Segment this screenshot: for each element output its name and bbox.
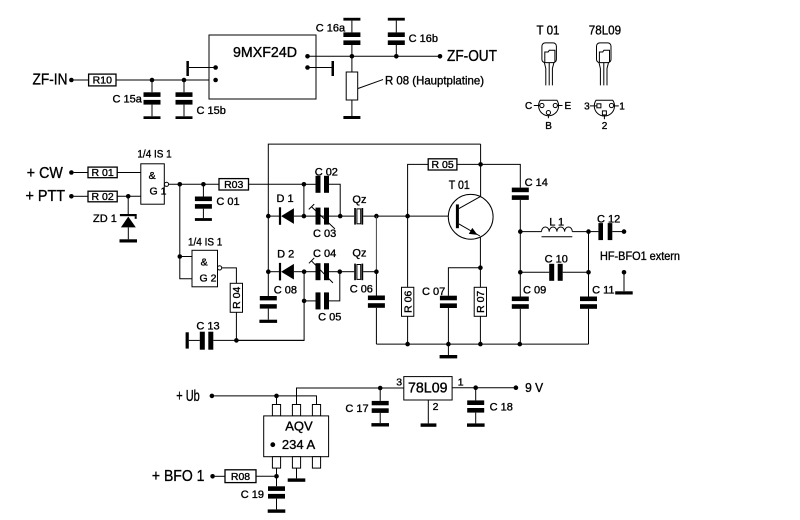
svg-text:C 13: C 13 (196, 321, 219, 333)
svg-text:C 11: C 11 (592, 284, 614, 296)
ground (388, 18, 405, 21)
crystal Qz lower (352, 247, 366, 280)
svg-text:1: 1 (619, 102, 625, 113)
svg-text:R 08 (Hauptplatine): R 08 (Hauptplatine) (385, 74, 484, 88)
capacitor C14 (481, 164, 548, 234)
resistor R06 (402, 216, 415, 344)
capacitor C08 (260, 272, 297, 320)
wire pin1 (452, 385, 516, 390)
ground (176, 116, 193, 119)
capacitor C02 (304, 167, 343, 219)
node +CW (27, 165, 74, 182)
ground (259, 320, 277, 323)
svg-text:R 01: R 01 (92, 167, 114, 179)
trimmer capacitor C04 (304, 248, 342, 283)
crystal filter 9MXF24D (209, 35, 316, 99)
svg-text:+ Ub: + Ub (176, 388, 200, 405)
svg-text:9 V: 9 V (525, 380, 543, 395)
ground (343, 18, 360, 21)
svg-text:C 18: C 18 (490, 402, 513, 414)
wire (297, 386, 404, 405)
ground (440, 344, 458, 358)
svg-text:T 01: T 01 (537, 23, 560, 38)
node ZF-IN (33, 71, 74, 88)
svg-text:C 15b: C 15b (197, 105, 226, 117)
resistor R10 (89, 74, 116, 87)
svg-text:G 2: G 2 (200, 272, 217, 284)
resistor R08 (Hauptplatine) (346, 56, 484, 116)
capacitor C12 (589, 214, 625, 241)
capacitor C11 (580, 232, 615, 345)
svg-text:C: C (525, 101, 532, 112)
svg-text:ZF-IN: ZF-IN (33, 71, 68, 88)
node +PTT (26, 188, 74, 205)
wire (340, 269, 379, 274)
wire (249, 182, 307, 216)
capacitor C18 (467, 388, 513, 424)
svg-text:R 02: R 02 (92, 191, 114, 203)
wire top rail (266, 144, 481, 274)
svg-text:+ CW: + CW (27, 165, 63, 182)
svg-text:D 2: D 2 (277, 249, 294, 261)
svg-text:C 07: C 07 (422, 286, 445, 298)
nand gate G1 (137, 148, 171, 204)
ground (467, 423, 485, 426)
svg-text:C 06: C 06 (350, 284, 373, 296)
ground (195, 218, 212, 221)
wire (256, 475, 277, 477)
svg-text:234 A: 234 A (282, 437, 316, 452)
svg-text:2: 2 (602, 121, 608, 132)
svg-text:1/4 IS 1: 1/4 IS 1 (188, 237, 222, 249)
capacitor C17 (345, 388, 388, 423)
regulator 78L09 (396, 377, 464, 414)
capacitor C16a (316, 21, 361, 57)
node +Ub (176, 388, 214, 405)
svg-text:C 09: C 09 (523, 284, 546, 296)
trimmer capacitor C03 (309, 204, 336, 240)
resistor R04 (230, 283, 243, 312)
svg-text:C 04: C 04 (313, 248, 336, 260)
svg-text:C 10: C 10 (545, 254, 568, 266)
svg-text:Qz: Qz (352, 194, 366, 206)
wire emitter (478, 237, 483, 288)
nand gate G2 (188, 237, 222, 287)
node HF-BFO1 extern (600, 229, 680, 262)
stub bar right (332, 61, 335, 76)
wire (274, 468, 279, 486)
svg-text:T 01: T 01 (449, 178, 470, 192)
capacitor C13 (186, 321, 305, 350)
ground terminal (615, 270, 633, 295)
svg-text:B: B (545, 121, 552, 132)
diode D1 (268, 193, 306, 225)
transistor T01 (448, 178, 493, 239)
ground pin2 (421, 400, 437, 427)
svg-text:78L09: 78L09 (408, 380, 448, 396)
wire collector (480, 144, 482, 196)
wire (178, 184, 193, 278)
wire (234, 312, 239, 342)
svg-text:Qz: Qz (352, 247, 366, 259)
capacitor C16b (388, 21, 438, 57)
wire (74, 79, 89, 81)
svg-text:HF-BFO1 extern: HF-BFO1 extern (600, 251, 680, 263)
svg-text:R 04: R 04 (231, 287, 243, 309)
wire (189, 67, 216, 69)
IC 78L09 pinout view (584, 100, 625, 132)
ground (288, 468, 306, 482)
svg-text:C 05: C 05 (318, 312, 341, 324)
inductor L1 (520, 217, 591, 237)
ground (144, 116, 161, 119)
wire crystal join (375, 216, 377, 272)
crystal Qz upper (352, 194, 366, 225)
svg-text:C 15a: C 15a (113, 94, 143, 106)
svg-text:C 03: C 03 (313, 228, 336, 240)
svg-text:3: 3 (396, 377, 402, 389)
capacitor C05 (304, 272, 341, 324)
wire (215, 475, 225, 477)
wire (116, 78, 216, 83)
transistor T01 pinout view (525, 100, 572, 132)
zener diode ZD1 (93, 196, 137, 239)
wire (308, 54, 441, 59)
capacitor C09 (512, 232, 546, 345)
capacitor C01 (195, 184, 240, 218)
capacitor C15b (176, 80, 226, 117)
wire (457, 162, 483, 167)
ground (371, 423, 389, 426)
ground (268, 509, 286, 512)
svg-text:C 19: C 19 (241, 489, 264, 501)
svg-text:AQV: AQV (285, 419, 313, 434)
wire (214, 394, 316, 405)
IC 78L09 package view (589, 23, 621, 86)
wire (74, 195, 88, 197)
svg-text:78L09: 78L09 (589, 23, 621, 38)
svg-text:G 1: G 1 (150, 185, 167, 197)
wire (308, 67, 332, 69)
svg-text:R03: R03 (224, 179, 243, 191)
svg-text:+ PTT: + PTT (26, 188, 66, 205)
capacitor C07 (422, 268, 480, 344)
svg-text:3: 3 (584, 102, 590, 113)
node ZF-OUT (438, 48, 498, 65)
svg-text:ZD 1: ZD 1 (93, 213, 117, 225)
resistor R02 (88, 191, 117, 203)
svg-text:2: 2 (433, 401, 439, 413)
ground (343, 116, 360, 119)
capacitor C15a (113, 80, 161, 116)
stub bar left (186, 61, 189, 76)
svg-text:R 06: R 06 (402, 291, 414, 313)
svg-text:C 17: C 17 (345, 403, 368, 415)
svg-text:R 07: R 07 (475, 291, 487, 313)
svg-text:R 05: R 05 (432, 159, 454, 171)
capacitor C06 (350, 272, 385, 344)
node +BFO1 (152, 468, 215, 485)
svg-text:ZF-OUT: ZF-OUT (447, 48, 497, 65)
svg-text:1/4 IS 1: 1/4 IS 1 (137, 148, 171, 160)
capacitor C10 (518, 254, 591, 281)
wire (236, 272, 306, 341)
svg-text:&: & (201, 257, 208, 269)
svg-text:C 08: C 08 (274, 285, 297, 297)
resistor R08 (225, 470, 256, 483)
resistor R07 (474, 287, 487, 344)
wire bottom rail (376, 342, 588, 347)
ground (120, 239, 138, 242)
svg-text:E: E (565, 101, 572, 112)
svg-text:C 16a: C 16a (316, 23, 346, 35)
wire base line (304, 214, 456, 219)
svg-text:1: 1 (458, 377, 464, 389)
svg-text:&: & (149, 170, 156, 182)
capacitor C19 (241, 486, 285, 509)
svg-text:C 16b: C 16b (409, 33, 438, 45)
resistor R05 (428, 159, 457, 171)
resistor R01 (88, 167, 117, 179)
transistor T01 package view (537, 23, 560, 86)
wire (222, 268, 237, 283)
optocoupler AQV 234 A (264, 405, 329, 469)
svg-text:D 1: D 1 (277, 193, 294, 205)
node 9V (514, 380, 544, 395)
diode D2 (268, 249, 306, 281)
wire (169, 182, 219, 187)
svg-text:C 01: C 01 (216, 196, 239, 208)
svg-text:9MXF24D: 9MXF24D (233, 45, 297, 61)
svg-text:C 14: C 14 (525, 177, 548, 189)
wire (117, 172, 141, 174)
wire (74, 172, 88, 174)
svg-text:+ BFO 1: + BFO 1 (152, 468, 205, 485)
wire (408, 164, 429, 216)
svg-text:R08: R08 (231, 471, 250, 483)
resistor R03 (219, 179, 249, 191)
wire (117, 194, 141, 199)
svg-text:R10: R10 (93, 75, 112, 87)
